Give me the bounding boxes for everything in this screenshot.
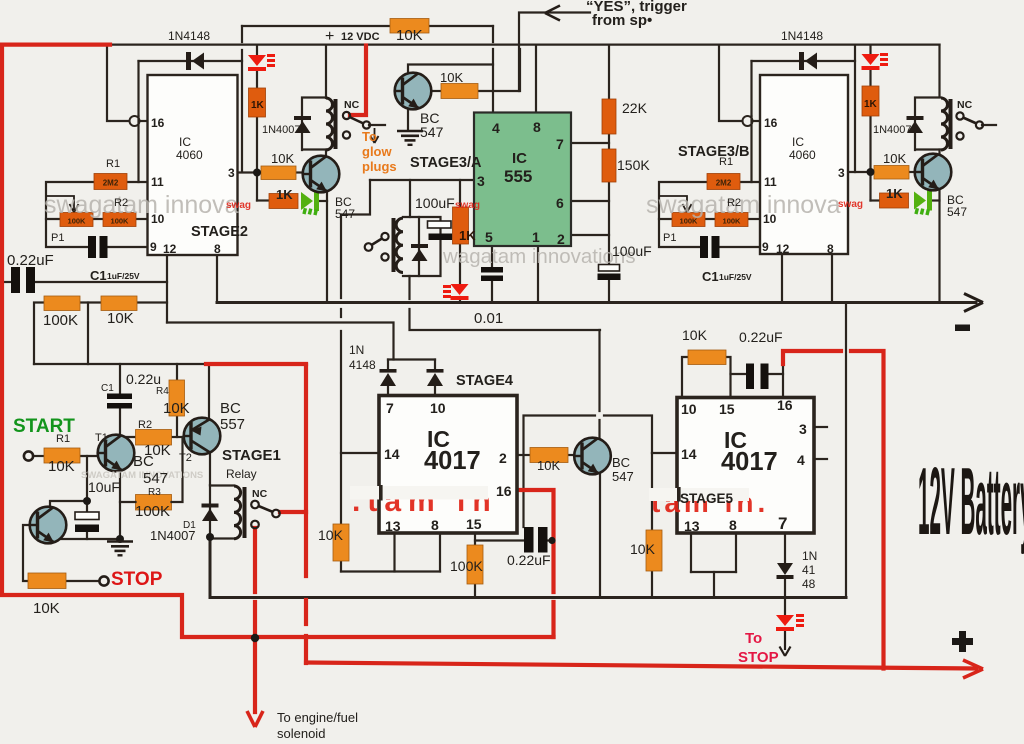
wire pin14 stage4 tap — [341, 452, 379, 454]
svg-text:16: 16 — [496, 483, 512, 499]
svg-text:2: 2 — [499, 450, 507, 466]
wire R4 riser — [176, 364, 178, 380]
svg-text:3: 3 — [228, 166, 235, 180]
wire R3 left lead — [120, 501, 136, 503]
svg-text:IC: IC — [512, 150, 527, 167]
wire stage4 cap riser — [524, 416, 596, 528]
wire stage5 cap left lead — [731, 373, 747, 375]
wire 0.01 cap to rail — [491, 281, 493, 303]
svg-text:100K: 100K — [43, 312, 78, 329]
svg-text:547: 547 — [612, 469, 634, 484]
terminal START — [24, 451, 33, 460]
wire red NC1 lower contact drop upper — [253, 528, 257, 592]
svg-text:1N: 1N — [349, 343, 364, 357]
wire R3 leads — [172, 437, 183, 502]
svg-text:swag: swag — [455, 200, 480, 211]
wire right 1K base branch — [871, 199, 880, 201]
svg-text:16: 16 — [764, 116, 778, 130]
svg-text:1K: 1K — [886, 186, 903, 201]
resistor 10K stage3A base — [441, 84, 478, 99]
wire P1 tap — [46, 218, 60, 220]
arrow red engine — [247, 711, 263, 727]
diode stage5 pin7 1N4148 — [777, 563, 794, 579]
wire right green LED to emitter — [931, 199, 940, 201]
wire bubble to IC left — [140, 120, 148, 122]
wire stage5 pin14 column — [651, 453, 653, 530]
wire stage4 border patch — [379, 485, 383, 501]
terminal STOP — [99, 576, 108, 585]
svg-text:10K: 10K — [33, 600, 60, 617]
wire stage5 pin3 stub — [814, 426, 827, 428]
wire stage1 relay diode branch — [209, 485, 211, 539]
wire red bottom bus — [306, 663, 976, 669]
wire red stage1 bus upper — [304, 365, 308, 576]
svg-text:R1: R1 — [106, 158, 120, 170]
wire 100K-10K junction drop — [87, 303, 89, 365]
wire stage5 U to gnd rail — [713, 572, 715, 598]
svg-text:100uF: 100uF — [612, 243, 652, 259]
wire stage4 cap right lead — [547, 539, 554, 541]
svg-text:8: 8 — [533, 119, 541, 135]
node junction pin3 left — [253, 169, 261, 177]
wire P1 wiper arrow right — [659, 196, 692, 213]
svg-text:11: 11 — [764, 175, 777, 189]
wire stage5 pin14 stub — [652, 452, 677, 454]
wire 22K to 150K — [608, 134, 610, 149]
relay RL3 stage3A coil box — [392, 217, 441, 276]
svg-text:swag: swag — [226, 200, 251, 211]
svg-text:48: 48 — [802, 577, 816, 591]
resistor 10K pin3 left — [261, 166, 296, 180]
LED red stage5 rays — [796, 614, 804, 627]
wire R1 to T1 base — [80, 455, 98, 457]
resistor P1 100K a right — [672, 213, 705, 227]
node junction relay1 bottom — [206, 533, 214, 541]
transistor Q T2 BC557 — [184, 418, 221, 455]
svg-text:solenoid: solenoid — [277, 726, 325, 741]
svg-text:10K: 10K — [682, 327, 708, 343]
resistor 10K stage4 left — [333, 524, 349, 561]
svg-text:6: 6 — [556, 195, 564, 211]
svg-text:0.22uF: 0.22uF — [7, 252, 54, 269]
svg-text:P1: P1 — [51, 232, 64, 244]
wire stage5 bottom U — [691, 571, 736, 573]
wire pin10 right — [747, 218, 760, 220]
wire rail2 drop to collector — [598, 330, 600, 411]
wire left 1K to pin3 node — [256, 117, 258, 201]
svg-text:1K: 1K — [459, 228, 476, 243]
resistor 10K mid left — [101, 296, 137, 311]
node junction stage4 cap red — [548, 537, 555, 544]
label To STOP — [738, 630, 779, 666]
svg-text:T2: T2 — [179, 452, 192, 464]
ground stage1 — [107, 542, 133, 556]
wire left LED to 1K — [256, 71, 258, 88]
svg-text:555: 555 — [504, 167, 532, 186]
svg-text:R1: R1 — [719, 156, 733, 168]
plus sign — [952, 631, 973, 652]
svg-text:100K: 100K — [450, 558, 483, 574]
svg-text:2M2: 2M2 — [103, 179, 119, 188]
wire cap 0.22 left lead — [0, 281, 11, 283]
wire red left border — [2, 45, 554, 637]
resistor 10K stage5 top — [688, 350, 726, 365]
wire stage5 cap right lead — [768, 373, 783, 375]
svg-text:1N4148: 1N4148 — [168, 29, 210, 43]
wire 10uF bottom stub — [86, 532, 88, 539]
wire 100K left end drop — [34, 303, 44, 365]
wire right emitter to mid rail — [938, 189, 940, 303]
wire stage5 diode to LED — [784, 578, 786, 615]
switch stage3A — [365, 233, 389, 261]
resistor 100K stage4 — [467, 545, 483, 584]
resistor R1 10K stage1 — [44, 448, 80, 463]
svg-text:15: 15 — [466, 516, 482, 532]
wire pin11 right — [739, 181, 760, 183]
resistor 22K — [602, 99, 616, 134]
LED red stage5 — [776, 615, 794, 631]
wire mid rail minus — [217, 301, 976, 304]
svg-text:1uF/25V: 1uF/25V — [719, 272, 752, 282]
resistor R1 2M2 left — [94, 174, 127, 190]
svg-text:STAGE4: STAGE4 — [456, 373, 513, 389]
svg-text:4148: 4148 — [349, 358, 376, 372]
IC U2 4060 STAGE3/B box — [760, 75, 848, 254]
wire red top left rail — [2, 42, 110, 46]
svg-text:1uF/25V: 1uF/25V — [107, 271, 140, 281]
wire stage1 top row — [34, 363, 207, 365]
wire 150K to 100uF — [608, 182, 610, 265]
svg-text:12V Battery: 12V Battery — [918, 447, 1024, 555]
svg-text:NC: NC — [252, 488, 268, 500]
svg-text:R2: R2 — [138, 419, 152, 431]
wire left green LED to emitter — [318, 200, 327, 202]
svg-text:0.22u: 0.22u — [126, 371, 161, 387]
wire left relay to collector — [325, 150, 327, 159]
wire BC557 collector riser — [208, 366, 210, 418]
wire right 2M2 loop vertical — [750, 116, 752, 182]
svg-text:8: 8 — [431, 517, 439, 533]
wire y323 link — [167, 323, 394, 360]
wire red stage4 pin16 link — [517, 490, 554, 592]
wire corner x242 rail drop — [241, 26, 243, 42]
wire C1 to T1 collector — [119, 408, 121, 437]
LED red right rays — [880, 53, 888, 66]
svg-text:4060: 4060 — [176, 148, 203, 162]
svg-text:150K: 150K — [617, 157, 650, 173]
svg-text:10K: 10K — [440, 70, 463, 85]
svg-text:3: 3 — [477, 173, 485, 189]
svg-text:10K: 10K — [271, 151, 294, 166]
label To glow plugs — [362, 129, 397, 174]
wire pin9 right — [719, 246, 760, 248]
transistor Q left BC547 — [303, 156, 340, 193]
diode D1 1N4007 stage1 — [202, 504, 219, 522]
wire 10K to T base left — [296, 171, 304, 173]
wire BC547-3A collector — [408, 65, 493, 76]
wire 555 pin4 drop — [492, 49, 494, 113]
capacitor C1 stage1 — [107, 394, 132, 409]
wire stage4 diode2 stub — [434, 360, 436, 370]
svg-text:547: 547 — [143, 470, 168, 487]
svg-text:4: 4 — [492, 120, 500, 136]
wire 555 pin1 drop — [537, 246, 539, 303]
wire right 1N4148 horizontal — [752, 60, 856, 62]
wire stage4 diode1 lower stub — [387, 386, 389, 396]
wire BC547-3A emitter to gnd — [407, 107, 409, 130]
LED red left top — [248, 55, 266, 71]
minus sign — [955, 325, 970, 332]
svg-text:8: 8 — [827, 242, 834, 256]
resistor 1K right vertical — [862, 86, 879, 116]
svg-text:from sp•: from sp• — [592, 12, 652, 29]
IC U5 4017 STAGE5 box — [677, 398, 814, 534]
IC U4 4017 STAGE4 box — [379, 396, 517, 534]
svg-text:10uF: 10uF — [88, 479, 120, 495]
wire YES arrowhead — [545, 6, 560, 21]
resistor R1 2M2 right — [707, 174, 740, 190]
resistor 10K STOP — [28, 573, 66, 589]
resistor 100K mid left — [44, 296, 80, 311]
wire stage5 pin8 drop — [735, 533, 737, 572]
wire NC lever stub left — [369, 124, 385, 126]
resistor 10K stage5 left — [646, 530, 662, 571]
relay RL1 left coil box — [302, 98, 338, 151]
LED red left rays — [267, 54, 275, 67]
svg-text:To engine/fuel: To engine/fuel — [277, 710, 358, 725]
svg-text:8: 8 — [214, 242, 221, 256]
wire right 4060 pin16 from rail — [719, 45, 742, 121]
wire LED-3A to rail — [459, 297, 461, 303]
wire stage4 pin2 to 10K — [517, 454, 530, 456]
svg-text:557: 557 — [220, 416, 245, 433]
LED green left — [301, 191, 319, 211]
svg-text:STAGE3/A: STAGE3/A — [410, 155, 482, 171]
transistor Q T1 BC547 — [98, 435, 135, 472]
svg-text:10: 10 — [763, 212, 777, 226]
wire stage4 pin15 cap row — [475, 539, 524, 541]
wire left emitter to mid rail — [326, 190, 328, 303]
diode stage4 a 1N4148 — [380, 369, 397, 386]
svg-text:R2: R2 — [727, 197, 741, 209]
capacitor 0.22uF stage4 — [524, 527, 548, 553]
svg-text:9: 9 — [762, 240, 769, 254]
relay RL4 stage1 coil box — [210, 486, 247, 539]
wire stage4 100K to gnd rail — [474, 584, 476, 598]
wire 555 pin2 stub — [571, 234, 609, 236]
wire pin3 right to 10K — [848, 171, 874, 173]
wire red to engine drop — [253, 638, 257, 712]
wire x493 upper stub — [492, 26, 494, 42]
svg-text:swag: swag — [838, 199, 863, 210]
svg-text:5: 5 — [485, 229, 493, 245]
resistor 1K stage3A — [453, 207, 469, 244]
LED green left rays — [302, 208, 318, 216]
svg-text:547: 547 — [335, 207, 355, 221]
capacitor 100uF mid electrolytic — [598, 265, 621, 281]
svg-text:100uF: 100uF — [415, 195, 455, 211]
svg-text:547: 547 — [947, 205, 967, 219]
wire +12V top rail — [109, 43, 940, 45]
wire right 1K to pin3 node — [869, 116, 871, 201]
resistor R3 100K stage1 — [136, 495, 172, 511]
wire x855 rail to pin3 node — [854, 45, 856, 172]
svg-text:NC: NC — [344, 99, 360, 111]
svg-text:1K: 1K — [251, 100, 265, 111]
node pin16 bubble right — [743, 116, 753, 126]
LED red stage3A — [451, 284, 469, 300]
resistor R4 10K stage1 — [169, 380, 185, 416]
wire bubble to IC right — [753, 120, 761, 122]
svg-text:16: 16 — [151, 116, 165, 130]
svg-text:13: 13 — [684, 518, 700, 534]
wire 555 pin3 line — [370, 179, 474, 181]
svg-text:8: 8 — [729, 517, 737, 533]
svg-text:16: 16 — [777, 397, 793, 413]
diode relay3A — [411, 244, 428, 261]
svg-text:100K: 100K — [135, 503, 170, 520]
svg-text:STOP: STOP — [111, 569, 163, 590]
svg-text:1N4007: 1N4007 — [150, 528, 196, 543]
wire NC lever stub right — [982, 124, 996, 126]
resistor 150K — [602, 149, 616, 182]
svg-text:NC: NC — [957, 99, 973, 111]
capacitor 0.22uF stage5 — [746, 364, 769, 390]
svg-text:T1: T1 — [95, 432, 108, 444]
LED red stage3A rays — [443, 285, 451, 298]
svg-text:7: 7 — [778, 514, 787, 533]
wire R4 to base row — [176, 416, 178, 437]
wire left 1N4148 horizontal — [139, 60, 243, 62]
svg-text:0.22uF: 0.22uF — [507, 552, 551, 568]
wire relay3A top riser — [409, 180, 411, 217]
wire 2M2 right feeder — [659, 182, 707, 247]
wire left 2M2 loop vertical — [137, 116, 139, 182]
resistor R2 100K b left — [103, 213, 136, 227]
wire pin11 left — [127, 181, 147, 183]
wire rail2 drop lower — [598, 420, 600, 440]
wire 1K-3A riser — [459, 180, 461, 207]
svg-text:10K: 10K — [396, 27, 423, 44]
node junction T1 emitter — [116, 535, 124, 543]
wire STOP 10K to terminal — [66, 580, 99, 582]
node junction pin3 right — [867, 168, 875, 176]
wire right 1N4148 loop vertical — [750, 61, 752, 116]
wire right 4060 pin8 drop — [831, 254, 833, 303]
wire red NC1 lower contact drop lower — [253, 602, 257, 638]
wire relay3A bottom stub — [408, 276, 410, 299]
svg-text:R4: R4 — [156, 386, 169, 397]
svg-text:10K: 10K — [107, 310, 134, 327]
svg-text:4017: 4017 — [721, 448, 778, 476]
wire emitter ground row — [60, 538, 120, 540]
relay RL2 right coil box — [915, 98, 953, 151]
LED red right top — [862, 54, 880, 70]
ground stage3A — [397, 131, 423, 145]
capacitor 0.01 — [481, 267, 503, 281]
IC U3 555 — [474, 113, 571, 248]
svg-text:547: 547 — [420, 124, 444, 140]
svg-text:swagatam innova: swagatam innova — [646, 191, 841, 219]
capacitor 10uF stage1 — [75, 512, 99, 532]
wire stage4 bottom U — [341, 570, 440, 572]
switch NC stage1 — [251, 501, 280, 529]
wire pin9 left — [107, 246, 147, 248]
svg-text:3: 3 — [838, 166, 845, 180]
svg-text:R1: R1 — [56, 433, 70, 445]
wire left 4060 pin16 from rail — [107, 45, 129, 121]
diode D 1N4148 left — [186, 52, 204, 70]
wire x242 diode to pin3 node — [241, 50, 243, 172]
wire 555 pin6 stub — [571, 200, 609, 202]
wire P1 wiper arrow left — [46, 196, 79, 213]
wire T1 collector to R2 — [120, 436, 136, 438]
svg-text:2M2: 2M2 — [716, 179, 732, 188]
wire stage5 pin4 stub — [814, 458, 827, 460]
IC U1 4060 STAGE2 box — [148, 75, 238, 255]
wire red NC1 to bus — [280, 510, 306, 514]
watermark mask stage4 — [350, 486, 488, 500]
wire red stage1 bus lower — [304, 600, 308, 624]
wire 2M2 left feeder — [46, 182, 94, 247]
wire stage4 diode2 lower stub — [434, 386, 436, 396]
node junction T1 base — [83, 497, 91, 505]
LED green right rays — [914, 208, 930, 216]
wire top 10K feeder y26 — [242, 25, 493, 27]
svg-text:12: 12 — [776, 242, 790, 256]
wire cap 0.22 to pin12 column — [35, 281, 167, 283]
transistor Q BC547 stage3A — [395, 73, 432, 110]
svg-text:1N4007: 1N4007 — [262, 124, 301, 136]
wire 10K to T base right — [909, 171, 916, 173]
svg-text:13: 13 — [385, 518, 401, 534]
wire red stage1 top link — [206, 362, 306, 366]
wire stage5 LED tail arrow — [780, 631, 791, 656]
wire P1 right link — [705, 218, 715, 220]
arrow mid rail — [964, 294, 983, 312]
wire 1K-3A to LED — [459, 244, 461, 284]
wire right LED to 1K — [869, 70, 871, 86]
resistor P1 100K a left — [60, 213, 93, 227]
wire x341 long drop to stage4 — [340, 331, 342, 525]
svg-text:1N: 1N — [802, 549, 817, 563]
svg-text:1N4007: 1N4007 — [873, 124, 912, 136]
svg-text:0.22uF: 0.22uF — [739, 329, 783, 345]
resistor 10K pin3 right — [874, 166, 909, 180]
wire T1 emitter — [119, 470, 121, 539]
diode 1N4007 relay2 right — [907, 116, 924, 133]
svg-text:BC: BC — [133, 453, 154, 470]
wire red stage5 pin16 left seg — [783, 351, 841, 364]
wire 555 pin5 drop — [491, 246, 493, 267]
wire ground rail bottom — [210, 539, 846, 598]
svg-text:10K: 10K — [48, 458, 75, 475]
wire T1 base branch down — [86, 456, 88, 501]
svg-text:22K: 22K — [622, 100, 648, 116]
wire pin3 down jog — [341, 180, 370, 298]
svg-text:3: 3 — [799, 421, 807, 437]
svg-text:C1: C1 — [702, 269, 719, 284]
transistor Q T3 — [30, 507, 67, 544]
svg-text:STAGE1: STAGE1 — [222, 447, 281, 464]
svg-text:10K: 10K — [163, 400, 190, 417]
wire stage4 pin8 drop — [439, 533, 441, 572]
wire T3 collector link — [50, 501, 87, 508]
arrow red plus rail — [963, 660, 983, 678]
watermark mask stage5 — [649, 488, 749, 501]
svg-text:1K: 1K — [864, 99, 878, 110]
svg-text:IC: IC — [179, 135, 191, 149]
